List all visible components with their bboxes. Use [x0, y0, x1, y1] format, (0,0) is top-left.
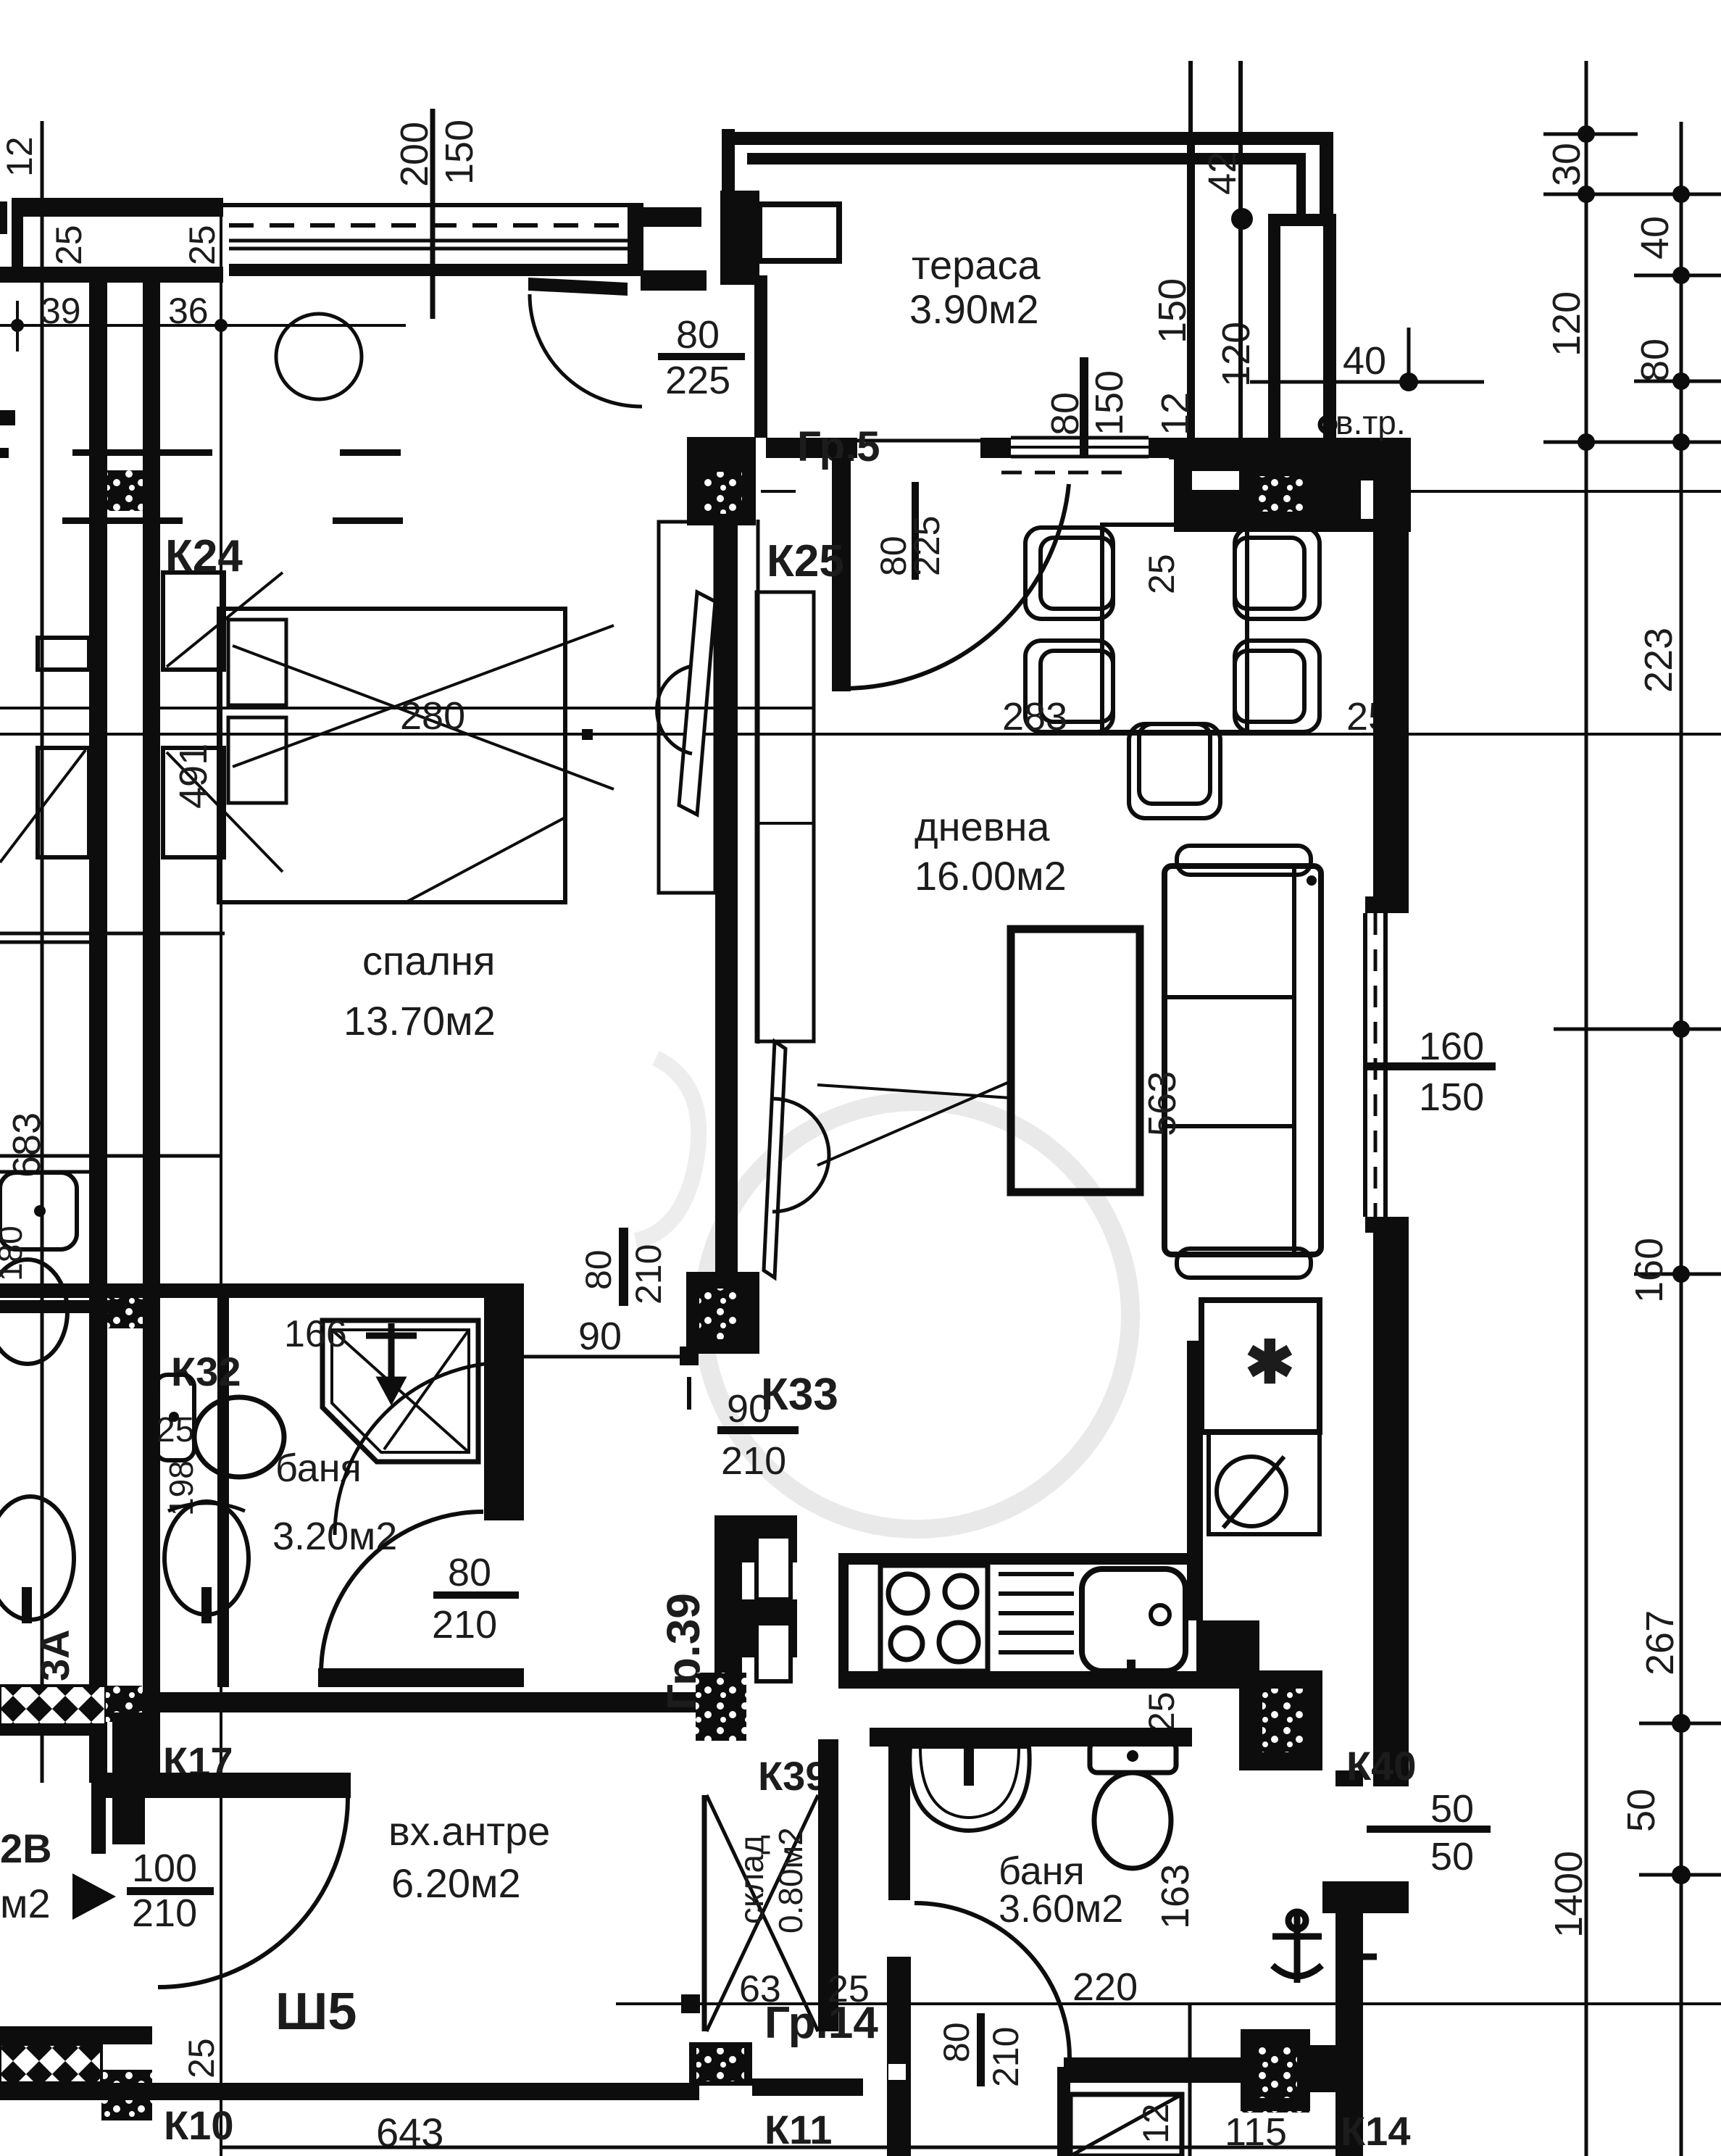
vent shaft wall A: [1268, 226, 1280, 440]
sofa armrest bottom: [1177, 1249, 1311, 1278]
spalnya wardrobe rect: [659, 522, 715, 893]
chair 5: [1129, 724, 1220, 818]
banya360 west wall lower: [887, 1957, 911, 2156]
wall jog vertical: [888, 2047, 909, 2090]
party wall left end cap: [12, 198, 23, 283]
bottom right block: [1241, 2029, 1310, 2111]
dim tick: [16, 301, 19, 351]
toilet 320 cistern: [156, 1375, 194, 1460]
window dim divider vertical: [430, 109, 436, 319]
vent shaft step bar: [1268, 214, 1336, 226]
right wall jamb above window: [1365, 896, 1409, 913]
svg-text:25: 25: [182, 225, 222, 265]
diamond hatch wall left: [0, 1686, 106, 1725]
Gr39 white notch 2: [757, 1623, 791, 1681]
K40 hatch core: [1262, 1689, 1307, 1752]
entrance mark triangle: [72, 1873, 116, 1920]
bottom wall band right: [1064, 2057, 1241, 2083]
diamond hatch bottom left: [0, 2044, 101, 2083]
party wall vertical band B: [143, 283, 160, 1783]
K10 hatch column: [101, 2070, 152, 2120]
svg-text:225: 225: [665, 359, 730, 402]
sofa cushion line 2: [1164, 1124, 1294, 1128]
K14 X diag 1: [1070, 2094, 1182, 2156]
window inner sill band: [229, 264, 628, 276]
antre north wall step: [91, 1773, 106, 1854]
right wall corner block low: [1322, 1881, 1409, 1913]
freezer cabinet: [1201, 1300, 1320, 1432]
corridor dim dot: [680, 1347, 699, 1365]
sofa dot: [1307, 875, 1317, 886]
svg-text:склад: склад: [733, 1835, 770, 1924]
vertical thin line x1642: [1188, 2004, 1192, 2156]
svg-text:2В: 2В: [0, 1826, 52, 1871]
dnevna sliding leaf lens: [764, 1041, 786, 1278]
svg-text:50: 50: [1430, 1787, 1474, 1831]
svg-text:100: 100: [132, 1847, 197, 1890]
svg-text:3.90м2: 3.90м2: [909, 286, 1039, 332]
axis dot mid: [582, 729, 593, 740]
terrace door opening sill line: [857, 439, 980, 443]
svg-text:25: 25: [1141, 1691, 1182, 1732]
svg-text:80: 80: [676, 313, 720, 357]
door lintel block left: [641, 207, 701, 227]
round column spalnya: [276, 314, 362, 399]
neighbour wall thin line: [41, 121, 44, 1783]
banya320 south wall: [318, 1668, 524, 1687]
svg-text:150: 150: [1419, 1075, 1484, 1119]
sofa back line: [1292, 866, 1296, 1254]
svg-text:13.70м2: 13.70м2: [343, 998, 496, 1044]
terrace door arc: [843, 484, 1069, 688]
wall face line dnevna side: [757, 520, 760, 1044]
svg-text:160: 160: [1419, 1025, 1484, 1068]
door 80/225 arc: [530, 294, 642, 407]
neighbour wall line y1274: [0, 941, 89, 944]
corridor south wall band: [138, 1692, 699, 1712]
opening 50/50 dim line: [1367, 1826, 1491, 1833]
watermark letter fragment: [636, 1058, 699, 1241]
terrace parapet inner band: [747, 153, 1306, 165]
K14 wall vertical: [1057, 2067, 1070, 2156]
terrace bottom wall west: [766, 438, 857, 458]
sklad X diag 2: [707, 1795, 818, 2031]
banya360 sink inner: [920, 1748, 1019, 1818]
wall block below: [1174, 458, 1411, 532]
shower cabin inner: [332, 1330, 469, 1452]
banya360 toilet cistern: [1090, 1741, 1176, 1773]
svg-text:90: 90: [578, 1315, 622, 1358]
svg-text:223: 223: [1637, 628, 1680, 693]
bed pillow 2: [228, 717, 286, 803]
terrace right parapet double line: [1187, 132, 1195, 458]
banya360 sink: [909, 1747, 1029, 1831]
axis line horizontal y1013: [0, 733, 1721, 736]
sink: [1082, 1569, 1185, 1671]
bed pillow 1: [228, 620, 286, 705]
svg-text:160: 160: [1628, 1238, 1671, 1303]
burner 4: [939, 1623, 978, 1662]
left margin wall stub: [0, 201, 7, 234]
sink faucet hole: [1151, 1605, 1170, 1624]
svg-text:280: 280: [400, 694, 465, 738]
svg-text:К32: К32: [171, 1349, 241, 1394]
svg-text:210: 210: [432, 1603, 497, 1647]
bed fold diagonal: [406, 817, 565, 902]
svg-text:К40: К40: [1346, 1743, 1416, 1789]
stove square: [880, 1565, 988, 1671]
svg-text:16.00м2: 16.00м2: [914, 853, 1067, 899]
dnevna window inner line: [1363, 913, 1367, 1217]
vent shaft corner outer: [1320, 132, 1333, 226]
Gr39 white notch 1: [757, 1536, 791, 1599]
banya360 toilet bowl: [1094, 1773, 1171, 1868]
svg-text:210: 210: [721, 1439, 786, 1483]
washer slash: [1223, 1457, 1284, 1528]
dnevna window outer line: [1383, 913, 1388, 1217]
dim tick dot: [11, 319, 24, 332]
door label fraction bar: [658, 353, 745, 360]
svg-text:42: 42: [1201, 151, 1244, 195]
axis line horizontal y2765: [616, 2002, 1721, 2005]
neighbour toilet bowl: [0, 1260, 67, 1364]
K26 column hatch core: [1255, 476, 1303, 512]
svg-text:3А: 3А: [32, 1629, 78, 1681]
corridor dim line y1872: [524, 1355, 686, 1359]
sofa outline: [1164, 866, 1321, 1254]
Gr39 block 2: [742, 1599, 797, 1657]
axis vert line x1747: [1238, 61, 1243, 440]
K24 column rect: [163, 573, 224, 670]
banya360 tap: [964, 1742, 974, 1786]
column hatch in party wall top: [107, 470, 143, 511]
terrace left corner block: [720, 191, 759, 285]
wardrobe arc bulge: [657, 666, 692, 754]
bed rect: [219, 609, 565, 902]
svg-text:220: 220: [1072, 1965, 1138, 2009]
sofa cushion line 1: [1164, 995, 1294, 999]
svg-text:25: 25: [49, 225, 89, 265]
wall stub below left: [0, 1724, 101, 1736]
svg-text:К14: К14: [1341, 2108, 1410, 2154]
wardrobe X line 2: [233, 625, 614, 767]
svg-text:80: 80: [448, 1551, 491, 1594]
chair 3: [1235, 528, 1320, 619]
corridor tick: [687, 1377, 691, 1410]
party wall outer band top-left: [12, 198, 223, 217]
svg-text:0.80м2: 0.80м2: [772, 1827, 809, 1934]
wardrobe divider: [659, 733, 715, 736]
terrace bottom wall east thick: [1169, 438, 1411, 459]
svg-text:6.20м2: 6.20м2: [391, 1860, 521, 1906]
neighbour wall line y1617: [0, 1170, 89, 1174]
K14 hatch column: [1241, 2047, 1309, 2113]
sink 320 bowl: [164, 1502, 249, 1615]
svg-text:тераса: тераса: [912, 242, 1041, 288]
axis dot node: [681, 1994, 700, 2013]
sklad west wall thin: [702, 1795, 707, 2031]
stair dash line 1b: [340, 449, 401, 456]
antre south wall band: [0, 2083, 699, 2100]
tick y1758: [1634, 1273, 1721, 1276]
kitchen door fraction bar: [717, 1426, 799, 1434]
window dashed line: [229, 223, 628, 228]
chair 1: [1025, 528, 1113, 619]
dim column 2 line: [1680, 122, 1683, 2156]
dining table: [1102, 525, 1247, 732]
neighbour sink tap: [22, 1587, 32, 1623]
svg-text:80: 80: [1633, 338, 1677, 382]
svg-text:К33: К33: [761, 1370, 838, 1420]
neighbour cistern dot: [34, 1205, 46, 1217]
svg-text:Гр.14: Гр.14: [764, 1998, 878, 2048]
kitchen door arc: [335, 1362, 507, 1535]
svg-text:К39: К39: [758, 1753, 828, 1799]
antre north wall: [91, 1773, 351, 1798]
K24 diagonal: [167, 573, 283, 667]
banya360 door bar: [977, 2013, 985, 2086]
dim line 280 upper: [156, 707, 814, 709]
right exterior wall mid: [1373, 1233, 1409, 1786]
svg-text:210: 210: [985, 2027, 1026, 2087]
kitchen window lines: [1011, 436, 1149, 440]
sklad east wall: [818, 1739, 838, 2031]
corridor door arc: [321, 1512, 483, 1674]
dnevna X line 1: [817, 1085, 1011, 1098]
svg-text:3.60м2: 3.60м2: [999, 1887, 1123, 1931]
counter left edge: [838, 1553, 849, 1689]
svg-text:200: 200: [393, 122, 436, 187]
terrace door leaf vertical: [832, 458, 851, 691]
window top line: [223, 203, 630, 207]
svg-text:80: 80: [1043, 392, 1087, 436]
party wall vertical band A: [89, 283, 107, 1783]
tv cabinet divider: [757, 822, 814, 825]
K33 hatch core: [699, 1289, 740, 1339]
entrance fraction bar: [127, 1887, 214, 1895]
terrace corner step white notch: [759, 204, 839, 261]
svg-text:283: 283: [1002, 695, 1067, 738]
band to right wall: [1310, 2045, 1335, 2092]
svg-text:150: 150: [438, 120, 481, 185]
sink tap: [1127, 1660, 1135, 1689]
banya360 north wall: [870, 1728, 1192, 1747]
svg-text:Ш5: Ш5: [275, 1983, 357, 2041]
banya320 west wall: [217, 1296, 229, 1687]
svg-text:К25: К25: [767, 536, 844, 586]
toilet 320 dot: [169, 1412, 179, 1422]
dnevna window dashed glazing: [1374, 913, 1378, 1217]
bottom right block hatch: [1254, 2047, 1297, 2098]
lower column rect: [163, 748, 224, 857]
right wall opening jamb top: [1335, 1770, 1363, 1786]
washer circle: [1217, 1457, 1286, 1526]
chair 2: [1025, 641, 1113, 732]
chair 4: [1235, 641, 1320, 732]
bottom thin line: [221, 2146, 1341, 2149]
shower diagonal 1: [332, 1330, 469, 1452]
svg-text:80: 80: [578, 1249, 619, 1290]
nook wall vertical: [754, 275, 767, 438]
door fraction bar: [433, 1591, 519, 1599]
right wall corner top: [1335, 459, 1409, 480]
banya320 east wall: [484, 1296, 524, 1520]
dnevna X line 2: [817, 1081, 1011, 1165]
antre south wall upper band: [0, 2026, 152, 2044]
shower tap symbol: [366, 1323, 417, 1399]
neighbour cistern: [0, 1173, 77, 1249]
svg-text:25: 25: [181, 2038, 222, 2078]
svg-text:✱: ✱: [1245, 1330, 1295, 1396]
svg-text:80: 80: [936, 2022, 977, 2063]
Gr39 side blocks: [742, 1515, 797, 1562]
drainboard stripes: [999, 1574, 1074, 1652]
K25 column block: [687, 437, 756, 525]
window jamb right: [628, 203, 643, 276]
svg-text:50: 50: [1620, 1789, 1663, 1832]
neighbour wall line y1595: [0, 1154, 221, 1158]
coffee table: [1011, 929, 1140, 1192]
svg-text:150: 150: [1151, 278, 1194, 344]
svg-text:166: 166: [284, 1313, 347, 1355]
washer box: [1209, 1432, 1320, 1534]
svg-text:563: 563: [1141, 1071, 1184, 1136]
svg-text:210: 210: [132, 1891, 197, 1935]
svg-text:25: 25: [1141, 554, 1182, 594]
svg-text:50: 50: [1430, 1835, 1474, 1878]
axis line right top y678: [1395, 490, 1721, 493]
kitchen east wall: [1187, 1341, 1203, 1620]
stair dash line 2a: [62, 517, 183, 524]
tick y526: [1634, 380, 1721, 383]
burner 1: [888, 1574, 928, 1613]
dim 160/150 fraction line: [1365, 1062, 1496, 1070]
tv cabinet dnevna: [757, 592, 814, 1041]
Gr39 duct wall: [714, 1515, 742, 1739]
tick y2378: [1639, 1722, 1721, 1726]
sink 320 tap: [201, 1587, 212, 1623]
party wall inner band: [0, 267, 223, 283]
K25 hatch core: [704, 472, 742, 514]
svg-text:491: 491: [172, 744, 215, 809]
wall stub left lower: [0, 1300, 124, 1313]
column hatch in party wall mid: [107, 1292, 143, 1328]
left edge stub 2: [0, 448, 9, 458]
dim 80/150 divider: [1080, 357, 1088, 458]
neighbour mirror diagonal: [0, 750, 86, 862]
anchor symbol: [1272, 1910, 1377, 1983]
svg-text:225: 225: [907, 516, 947, 576]
tick y2587: [1639, 1873, 1721, 1877]
svg-text:баня: баня: [999, 1849, 1085, 1893]
dim line 280 left stub: [0, 707, 89, 709]
kitchen window dashed lower: [1001, 471, 1133, 475]
dim line y449: [0, 324, 406, 327]
wall spalnya-dnevna: [715, 520, 738, 1286]
terrace bottom wall mid: [980, 438, 1169, 458]
tick above parapet: [1188, 61, 1193, 132]
svg-text:30: 30: [1545, 143, 1588, 186]
corridor fraction bar vertical: [619, 1228, 628, 1306]
svg-text:150: 150: [1088, 370, 1131, 436]
svg-text:180: 180: [0, 1225, 29, 1281]
neighbour mirror column top: [38, 638, 89, 670]
terrace parapet top line: [722, 132, 1333, 145]
right wall jamb below window: [1365, 1217, 1409, 1233]
tick y610: [1543, 441, 1721, 444]
K40 column block: [1239, 1670, 1322, 1770]
svg-text:40: 40: [1633, 216, 1677, 259]
v.tr. dot: [1320, 417, 1335, 432]
white slit right: [1361, 464, 1389, 519]
svg-text:дневна: дневна: [914, 804, 1050, 849]
svg-text:163: 163: [1154, 1864, 1197, 1929]
banya360 toilet dot: [1127, 1750, 1138, 1762]
wardrobe sliding leaf lens: [679, 592, 715, 815]
corner black module: [1196, 1620, 1259, 1674]
spalnya axis vertical thin x305: [220, 210, 222, 2156]
svg-text:40: 40: [1343, 339, 1386, 383]
svg-text:210: 210: [628, 1244, 669, 1304]
banya360 south wall: [752, 2078, 863, 2096]
tick y185: [1543, 133, 1638, 136]
axis dot terrace: [1231, 208, 1253, 230]
K39 hatch column: [696, 1673, 746, 1741]
neighbour wall line y1252: [0, 932, 225, 936]
svg-text:12: 12: [1154, 392, 1197, 436]
left edge stub 1: [0, 410, 15, 425]
sklad X diag 1: [707, 1795, 818, 2031]
kitchen window in terrace wall white: [1011, 435, 1149, 459]
kitchen counter top band: [838, 1553, 1192, 1565]
stair dash line 1a: [72, 449, 212, 456]
svg-text:вх.антре: вх.антре: [388, 1808, 550, 1854]
neighbour mirror column: [38, 748, 89, 857]
svg-text:120: 120: [1214, 322, 1258, 387]
door 80/225 leaf: [528, 278, 628, 296]
white notch in block: [1192, 471, 1239, 490]
antre west wall band: [112, 1712, 145, 1844]
window mid line 1: [229, 239, 628, 243]
svg-text:спалня: спалня: [362, 938, 495, 983]
stair dash line 2b: [333, 517, 403, 524]
svg-text:м2: м2: [0, 1881, 51, 1926]
terrace door divider: [912, 482, 919, 580]
svg-text:12: 12: [0, 136, 40, 177]
K14 X box: [1070, 2094, 1182, 2156]
vent shaft wall B: [1323, 226, 1336, 440]
dim column 1 line: [1585, 61, 1588, 2156]
burner 3: [891, 1628, 922, 1660]
svg-text:267: 267: [1638, 1610, 1682, 1676]
svg-text:К10: К10: [164, 2102, 233, 2148]
axis dot: [1341, 486, 1353, 497]
sill double line right: [1201, 486, 1241, 489]
terrace parapet left cap: [722, 129, 735, 191]
sink 320 outer: [168, 1503, 245, 1511]
vent shaft inner corner: [1296, 157, 1306, 222]
tick y268: [1543, 193, 1721, 196]
door lintel block right: [641, 270, 707, 291]
spalnya south wall: [0, 1283, 524, 1298]
shower cabin outer: [322, 1320, 478, 1462]
shower diagonal 2: [384, 1330, 469, 1449]
wardrobe X line 1: [233, 646, 614, 789]
svg-text:12: 12: [1135, 2103, 1176, 2144]
burner 2: [945, 1576, 977, 1607]
tick y1420: [1554, 1028, 1721, 1031]
right exterior wall upper: [1373, 459, 1409, 896]
